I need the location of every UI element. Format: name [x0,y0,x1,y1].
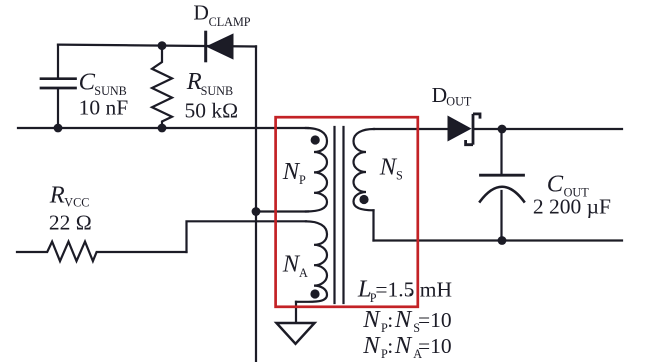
transformer aux Na winding [296,221,327,301]
capacitor C2 Cout top plate [481,174,524,177]
svg-text:A: A [299,266,308,280]
svg-text:22 Ω: 22 Ω [49,211,92,235]
capacitor C1 Csunb stem bottom [57,89,59,128]
svg-text:D: D [432,83,448,107]
node Csunb top [158,41,167,50]
ground symbol [277,323,315,344]
svg-text:N: N [362,332,381,359]
svg-text:10 nF: 10 nF [79,96,129,120]
capacitor C1 Csunb plates [41,79,76,88]
wire Ns top to diode [374,128,448,130]
label Np winding [282,158,306,187]
diode D1 Dclamp triangle [207,34,233,59]
wire Np bottom to node [256,210,308,212]
transformer core [335,127,344,303]
phase dot Np [311,135,320,144]
label Rvcc [49,181,90,209]
wire main input rail [18,127,308,129]
capacitor C2 Cout stem bottom [500,191,502,241]
svg-text:N: N [394,332,413,359]
svg-text::: : [387,308,393,332]
node Np bottom junction [252,207,261,216]
label Cout [547,170,589,199]
svg-text:S: S [396,169,403,183]
label Dclamp [193,1,250,29]
label Na winding [282,251,308,281]
transformer primary Np winding [306,128,327,212]
note Np:Ns ratio [362,306,451,335]
wire secondary bottom rail [374,239,623,241]
wire Rvcc riser to aux [187,221,307,252]
capacitor C1 Csunb stem top [57,45,59,78]
svg-text:CLAMP: CLAMP [209,15,251,29]
svg-text::: : [387,334,393,358]
svg-text:N: N [379,154,398,181]
node Rsunb bottom [158,124,167,133]
label Ns winding [379,154,403,183]
junction node dots [54,41,507,298]
svg-text:=10: =10 [418,334,452,358]
resistor R2 Rvcc [17,242,187,262]
svg-text:C: C [547,170,564,197]
resistor R1 Rsunb [152,46,172,128]
svg-text:OUT: OUT [446,94,472,108]
node Dout cathode junction [498,125,507,134]
capacitor C2 Cout stem top [500,129,502,174]
svg-text:=10: =10 [418,308,452,332]
transformer secondary Ns winding [354,129,375,210]
svg-text:N: N [282,251,301,278]
svg-text:N: N [362,306,381,333]
svg-text:50 kΩ: 50 kΩ [185,98,239,122]
stray period after 1.5 [409,293,412,296]
diode D2 Dout triangle [448,116,471,140]
red measurement box [276,117,418,307]
svg-text:SUNB: SUNB [201,84,234,98]
svg-text:N: N [394,306,413,333]
svg-text:D: D [193,1,209,25]
diode D1 Dclamp bar [204,31,207,63]
label Rsunb [186,68,233,98]
note Np:Na ratio [362,332,451,361]
wire Ns bottom drop [372,210,374,240]
phase dot Na [310,289,319,298]
node Cout bottom junction [498,236,507,245]
node Csunb bottom [54,124,63,133]
svg-text:VCC: VCC [64,196,89,210]
diode D2 Dout schottky bar [466,114,480,145]
wire ground stem [295,302,297,323]
wire top clamp rail [58,45,256,47]
label Csunb [79,68,127,98]
svg-text:R: R [49,181,65,208]
label Dout [432,83,472,109]
wire diode out to edge [474,128,622,130]
svg-text:P: P [299,173,306,187]
wire clamp vertical drop [255,46,257,362]
note Lp value [357,275,452,305]
svg-text:2 200 µF: 2 200 µF [533,195,611,219]
svg-text:R: R [186,68,202,95]
svg-text:C: C [79,68,96,95]
svg-text:N: N [282,158,301,185]
capacitor C2 Cout curved plate [480,187,524,202]
svg-text:=1.5 mH: =1.5 mH [375,277,452,301]
phase dot Ns [359,195,368,204]
